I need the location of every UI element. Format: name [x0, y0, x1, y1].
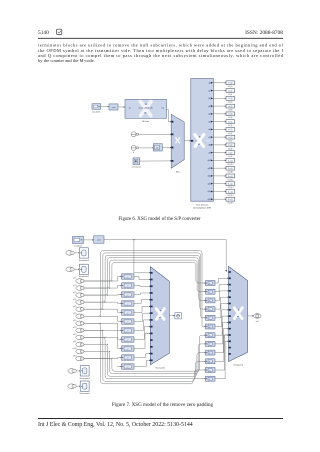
- center mux port 10: [150, 339, 152, 341]
- svg-text:out1: out1: [256, 320, 259, 323]
- right mux port 0: [229, 271, 231, 273]
- wire Counter1 to cast: [101, 106, 108, 108]
- terminal box out14: [226, 190, 235, 194]
- block Delay17 (right column): [206, 315, 216, 320]
- svg-text:Terminator5: Terminator5: [79, 392, 90, 395]
- svg-text:q6: q6: [208, 129, 210, 131]
- center mux port 6: [150, 312, 152, 314]
- block Terminator2: [79, 248, 88, 258]
- TDD output port q3: [211, 105, 214, 107]
- svg-text:Time Diverse: Time Diverse: [196, 204, 209, 206]
- mux Mux (fig6 trapezoid): [171, 114, 184, 168]
- mux input port 2 (fig6): [171, 133, 173, 135]
- wire Delay1 to center mux: [134, 276, 149, 279]
- wire input jog to Delay9: [84, 337, 120, 348]
- inport oval in2 (fig7): [76, 293, 84, 298]
- svg-text:cast: cast: [97, 239, 101, 242]
- inport oval in0 (fig7): [76, 279, 84, 284]
- svg-text:xd: xd: [129, 107, 131, 109]
- inport oval in8 (fig7): [76, 335, 84, 340]
- terminal box out1: [226, 89, 235, 93]
- terminal box out4: [226, 112, 235, 116]
- wire q5 to terminal: [213, 121, 224, 123]
- wire Delay10 to center mux: [134, 354, 149, 358]
- svg-text:q9/5: q9/5: [73, 341, 76, 343]
- svg-text:q0: q0: [208, 83, 210, 85]
- svg-text:q2/5: q2/5: [73, 292, 76, 294]
- svg-text:q6/5: q6/5: [73, 320, 76, 322]
- wire q6 to terminal: [213, 128, 224, 130]
- wire Delay6 to center mux: [134, 313, 149, 321]
- wire Delay18 to right mux: [215, 310, 227, 327]
- inport oval feeding Terminator1: [66, 267, 73, 272]
- block Delay9 (middle column): [122, 346, 135, 351]
- svg-text:Terminator1: Terminator1: [79, 275, 90, 278]
- svg-text:(I7,Q): (I7,Q): [228, 137, 232, 139]
- TDD output port q4: [211, 113, 214, 115]
- TDD output port q1: [211, 90, 214, 92]
- svg-text:I0,Q0: I0,Q0: [228, 86, 232, 88]
- wire right mux output: [248, 315, 253, 317]
- TDD output port q0: [211, 82, 214, 84]
- wire Delay23 to right mux: [215, 335, 227, 370]
- svg-text:(I14,Q): (I14,Q): [228, 191, 233, 193]
- right mux port 5: [229, 303, 231, 305]
- wire q11 to terminal: [213, 167, 224, 169]
- wire Delay11 to center mux: [134, 360, 149, 366]
- right mux xilinx logo: [234, 308, 242, 319]
- right mux port 3: [229, 290, 231, 292]
- wire bundle-top 5 (in5 to right Delay18): [84, 251, 204, 327]
- TDD output port q9: [211, 152, 214, 154]
- wire bundle-bottom 5 (in11 to right Delay19): [84, 335, 204, 371]
- inport circle A (fig6): [131, 132, 136, 137]
- terminal box out11: [226, 166, 235, 170]
- block Counter1 (fig6): [92, 104, 101, 110]
- svg-text:q4: q4: [208, 114, 210, 116]
- block Delay6 (middle column): [122, 319, 135, 324]
- inport oval in3 (fig7): [76, 300, 84, 305]
- wire q10 to terminal: [213, 159, 224, 161]
- inport oval in10 (fig7): [76, 349, 84, 354]
- block Terminator5: [80, 381, 89, 391]
- wire Delay21 to right mux: [215, 329, 227, 353]
- svg-text:(I13,Q): (I13,Q): [228, 184, 233, 186]
- mux input port 3 (fig6): [171, 147, 173, 149]
- svg-text:(I9,Q): (I9,Q): [228, 152, 232, 154]
- wire Delay24 to right mux: [215, 341, 227, 378]
- center mux port 3: [150, 292, 152, 294]
- wire Delay2 to center mux: [134, 284, 149, 287]
- block Delay3 (middle column): [122, 292, 135, 297]
- center mux port 7: [150, 319, 152, 321]
- block Delay2 (middle column): [122, 283, 135, 288]
- inport oval in6 (fig7): [76, 321, 84, 326]
- TDD output port q11: [211, 167, 214, 169]
- svg-text:Figure 7. XSG model of the rem: Figure 7. XSG model of the remove zero p…: [112, 401, 214, 408]
- svg-text:q9: q9: [208, 152, 210, 154]
- wire Delay9 to center mux: [134, 333, 149, 348]
- terminal box out13: [226, 182, 235, 186]
- wire input jog to Delay2: [84, 285, 120, 288]
- wire bundle-bottom 3 (in9 to right Delay21): [84, 344, 204, 376]
- block Terminator1: [79, 264, 88, 274]
- svg-text:Imag part0: Imag part0: [233, 363, 243, 366]
- center mux port 4: [150, 299, 152, 301]
- block Terminator3: [80, 366, 89, 376]
- svg-text:I13,Q13: I13,Q13: [227, 187, 233, 189]
- terminal box out3: [226, 104, 235, 108]
- TDD input port d: [191, 140, 193, 142]
- wire Delay3 to center mux: [134, 293, 149, 294]
- wire Mux to TDD: [184, 140, 189, 142]
- svg-text:q14: q14: [208, 191, 211, 193]
- terminal box out0: [226, 81, 235, 85]
- right mux port 1: [229, 277, 231, 279]
- terminal box out6: [226, 127, 235, 131]
- block Delay5 (middle column): [122, 310, 135, 315]
- terminal box out5: [226, 120, 235, 124]
- svg-text:I15,Q15: I15,Q15: [227, 203, 233, 205]
- svg-text:(I0,Q): (I0,Q): [228, 83, 232, 85]
- svg-text:(I2,Q): (I2,Q): [228, 98, 232, 100]
- wire input jog to Delay6: [84, 316, 120, 321]
- inport oval in11 (fig7): [76, 356, 84, 361]
- center mux port 13: [150, 359, 152, 361]
- right mux port 11: [229, 340, 231, 342]
- wire Delay4 to center mux: [134, 300, 149, 304]
- wire Delay19 to right mux: [215, 316, 227, 335]
- svg-text:TDD: TDD: [206, 141, 211, 143]
- svg-text:MCode: MCode: [142, 121, 150, 123]
- wire q0 to terminal: [213, 82, 224, 84]
- figure 6: XSG model of the S/P converter: [92, 79, 235, 210]
- TDD output port q8: [211, 144, 214, 146]
- wire cast across top to right mux: [104, 240, 226, 271]
- svg-text:Constant1: Constant1: [132, 166, 142, 169]
- wire q9 to terminal: [213, 152, 224, 154]
- wire Delay5 to center mux: [134, 306, 149, 312]
- page header crossmark icon: [57, 29, 62, 34]
- block Delay19 (right column): [206, 333, 216, 338]
- wire q1 to terminal: [213, 90, 224, 92]
- wire to Terminator3: [76, 370, 79, 372]
- wire Delay20 to right mux: [215, 322, 227, 344]
- svg-text:(I1,Q): (I1,Q): [228, 90, 232, 92]
- right mux port 12: [229, 347, 231, 349]
- svg-text:Int J Elec & Comp Eng, Vol. 12: Int J Elec & Comp Eng, Vol. 12, No. 5, O…: [38, 422, 193, 428]
- wire bundle-bottom 2 (in8 to right Delay22): [84, 337, 204, 378]
- svg-text:I12,Q12: I12,Q12: [227, 179, 233, 181]
- wire inport A to Mux: [138, 133, 170, 135]
- block TDD Time Diverse Demultiplexer: [191, 79, 214, 202]
- svg-text:(I10,Q): (I10,Q): [228, 160, 233, 162]
- wire Constant1 to Mux: [140, 160, 170, 162]
- wire Delay15 to right mux: [215, 291, 227, 301]
- block Delay1 (middle column): [122, 274, 135, 279]
- wire q4 to terminal: [213, 113, 224, 115]
- svg-text:q1/5: q1/5: [73, 285, 76, 287]
- wire bundle-top 2 (in2 to right Delay15): [84, 258, 204, 301]
- center mux port 8: [150, 326, 152, 328]
- svg-text:q13: q13: [208, 183, 211, 185]
- TDD output port q6: [211, 128, 214, 130]
- wire relational to Mux: [162, 147, 170, 149]
- block Delay20 (right column): [206, 341, 216, 346]
- wire Delay22 to right mux: [215, 335, 227, 361]
- wire bundle-top 3 (in3 to right Delay16): [84, 255, 204, 309]
- TDD output port q10: [211, 160, 214, 162]
- terminal box out15: [226, 197, 235, 201]
- right mux port 7: [229, 315, 231, 317]
- right mux port 10: [229, 334, 231, 336]
- svg-text:I9,Q9: I9,Q9: [228, 156, 232, 158]
- wire Delay7 to center mux: [134, 320, 149, 330]
- terminal box out7: [226, 135, 235, 139]
- wire inport B to relational: [138, 147, 152, 149]
- figure 7: XSG model of the remove zero padding: [66, 236, 261, 395]
- wire q12 to terminal: [213, 175, 224, 177]
- svg-text:d_out = db(dl_off): d_out = db(dl_off): [139, 106, 154, 109]
- svg-text:q8: q8: [208, 145, 210, 147]
- wire center mux output: [169, 315, 173, 317]
- block Delay11 (middle column): [122, 364, 135, 369]
- svg-text:b: b: [133, 152, 134, 154]
- inport oval in5 (fig7): [76, 314, 84, 319]
- svg-text:5140: 5140: [38, 30, 49, 36]
- wire input jog to Delay5: [84, 309, 120, 312]
- inport circle B (fig6): [131, 145, 136, 150]
- center mux port 11: [150, 346, 152, 348]
- svg-text:I1,Q1: I1,Q1: [228, 94, 232, 96]
- svg-text:q5/5: q5/5: [73, 313, 76, 315]
- svg-text:q10: q10: [208, 160, 211, 162]
- wire bundle-top 4 (in4 to right Delay17): [84, 253, 204, 318]
- wire MCode to Mux sel: [167, 110, 170, 122]
- wire input jog to Delay10: [84, 357, 120, 358]
- terminal box out10: [226, 159, 235, 163]
- wire to Terminator1: [74, 268, 78, 270]
- terminal box out8: [226, 143, 235, 147]
- terminal box out12: [226, 174, 235, 178]
- wire to Terminator2: [74, 252, 78, 254]
- svg-text:q15: q15: [208, 199, 211, 201]
- svg-text:Counter1: Counter1: [74, 245, 83, 248]
- block Delay22 (right column): [206, 359, 216, 364]
- inport oval feeding Terminator3: [68, 369, 75, 374]
- wire bundle-bottom 4 (in10 to right Delay20): [84, 344, 204, 374]
- svg-text:I2,Q2: I2,Q2: [228, 102, 232, 104]
- svg-text:I11,Q11: I11,Q11: [227, 172, 233, 174]
- mux Imag part0 (right trapezoid): [229, 266, 248, 361]
- wire input jog to Delay1: [84, 276, 120, 281]
- inport oval in9 (fig7): [76, 342, 84, 347]
- svg-text:I7,Q7: I7,Q7: [228, 141, 232, 143]
- svg-text:(I12,Q): (I12,Q): [228, 176, 233, 178]
- right mux port 8: [229, 322, 231, 324]
- terminal box out2: [226, 96, 235, 100]
- block Constant1 (fig6): [133, 158, 140, 165]
- wire q13 to terminal: [213, 183, 224, 185]
- wire counter junction to center mux sel: [134, 240, 149, 273]
- wire q2 to terminal: [213, 97, 224, 99]
- svg-text:(I4,Q): (I4,Q): [228, 114, 232, 116]
- svg-text:q5: q5: [208, 121, 210, 123]
- svg-text:(I15,Q): (I15,Q): [228, 199, 233, 201]
- svg-text:q7/5: q7/5: [73, 327, 76, 329]
- terminal box after center mux: [175, 313, 181, 319]
- block Delay18 (right column): [206, 324, 216, 329]
- center mux port 9: [150, 333, 152, 335]
- block Delay15 (right column): [206, 298, 216, 303]
- svg-text:ISSN: 2088-8708: ISSN: 2088-8708: [245, 30, 283, 36]
- wire bundle-bottom 0 (in6 to right Delay24): [84, 323, 204, 384]
- wire input jog to Delay4: [84, 302, 120, 303]
- block cast (fig6): [109, 104, 118, 110]
- wire input jog to Delay7: [84, 323, 120, 330]
- wire to Terminator5: [76, 385, 79, 387]
- wire Delay8 to center mux: [134, 327, 149, 340]
- svg-text:q11/5: q11/5: [73, 355, 77, 357]
- svg-text:(I8,Q): (I8,Q): [228, 145, 232, 147]
- svg-text:I6,Q6: I6,Q6: [228, 133, 232, 135]
- wire q3 to terminal: [213, 105, 224, 107]
- center mux xilinx logo: [156, 309, 164, 320]
- svg-text:Terminator2: Terminator2: [79, 259, 90, 262]
- wire bundle-bottom 1 (in7 to right Delay23): [84, 330, 204, 381]
- svg-text:(I3,Q): (I3,Q): [228, 106, 232, 108]
- block Delay24 (right column): [206, 376, 216, 381]
- center mux port 12: [150, 353, 152, 355]
- block Delay4 (middle column): [122, 301, 135, 306]
- junction on counter wire: [133, 239, 134, 240]
- svg-text:I3,Q3: I3,Q3: [228, 109, 232, 111]
- TDD output port q5: [211, 121, 214, 123]
- svg-text:Demultiplexer (SP): Demultiplexer (SP): [193, 207, 211, 210]
- TDD output port q2: [211, 97, 214, 99]
- wire Counter1 to cast (fig7): [84, 239, 93, 241]
- svg-text:q7: q7: [208, 137, 210, 139]
- wire q8 to terminal: [213, 144, 224, 146]
- block Delay13 (right column): [206, 281, 216, 286]
- svg-text:I4,Q4: I4,Q4: [228, 117, 232, 119]
- inport oval in1 (fig7): [76, 286, 84, 291]
- svg-text:d: d: [195, 141, 196, 143]
- svg-text:cast: cast: [112, 106, 116, 109]
- svg-text:q0/5: q0/5: [73, 278, 76, 280]
- svg-text:q3/5: q3/5: [73, 299, 76, 301]
- TDD output port q12: [211, 175, 214, 177]
- center mux port 1: [150, 279, 152, 281]
- terminal box out9: [226, 151, 235, 155]
- inport oval feeding Terminator2: [66, 251, 73, 256]
- svg-text:Terminator3: Terminator3: [79, 377, 90, 380]
- block Delay14 (right column): [206, 289, 216, 294]
- outport oval out1 (fig7): [254, 314, 261, 319]
- inport oval feeding Terminator5: [68, 384, 75, 389]
- wire stub to Delay11: [117, 365, 120, 367]
- wire q7 to terminal: [213, 136, 224, 138]
- wire input jog to Delay3: [84, 293, 120, 296]
- svg-text:(I11,Q): (I11,Q): [228, 168, 233, 170]
- block cast (fig7): [94, 236, 104, 243]
- right mux port 9: [229, 328, 231, 330]
- right mux port 2: [229, 284, 231, 286]
- footer rule: [38, 418, 283, 420]
- svg-text:by the counter and the M-code.: by the counter and the M-code.: [38, 58, 95, 63]
- svg-text:q8/5: q8/5: [73, 334, 76, 336]
- center mux port 2: [150, 285, 152, 287]
- wire q14 to terminal: [213, 190, 224, 192]
- svg-text:q3: q3: [208, 106, 210, 108]
- block Delay21 (right column): [206, 350, 216, 355]
- TDD output port q7: [211, 136, 214, 138]
- TDD output port q13: [211, 183, 214, 185]
- block relational a&le;b (fig6): [153, 144, 162, 151]
- wire q15 to terminal: [213, 198, 224, 200]
- block Delay16 (right column): [206, 307, 216, 312]
- center mux port 0: [150, 272, 152, 274]
- mux input port 4 (fig6): [171, 160, 173, 162]
- svg-text:q12: q12: [208, 176, 211, 178]
- TDD output port q15: [211, 198, 214, 200]
- svg-text:a≤b: a≤b: [156, 147, 159, 150]
- svg-text:(I5,Q): (I5,Q): [228, 121, 232, 123]
- wire bundle-top 0 (in0 to right Delay13): [84, 263, 204, 284]
- right mux port 4: [229, 296, 231, 298]
- right mux port 6: [229, 309, 231, 311]
- mux xilinx logo (fig6): [176, 138, 180, 143]
- center mux port 5: [150, 306, 152, 308]
- svg-text:q1: q1: [208, 90, 210, 92]
- wire bundle-top 1 (in1 to right Delay14): [84, 260, 204, 292]
- block Delay8 (middle column): [122, 337, 135, 342]
- right mux port 13: [229, 353, 231, 355]
- svg-text:q2: q2: [208, 98, 210, 100]
- svg-text:(I6,Q): (I6,Q): [228, 129, 232, 131]
- wire Delay17 to right mux: [215, 304, 227, 318]
- svg-text:Figure 6. XSG model of the S/P: Figure 6. XSG model of the S/P converter: [118, 217, 201, 222]
- TDD xilinx logo: [195, 135, 204, 147]
- wire input jog to Delay8: [84, 330, 120, 339]
- svg-text:I14,Q14: I14,Q14: [227, 195, 233, 197]
- block MCode: [125, 99, 167, 118]
- wire cast to MCode: [118, 106, 124, 108]
- svg-text:I10,Q10: I10,Q10: [227, 164, 233, 166]
- svg-text:Counter1: Counter1: [92, 111, 101, 114]
- mux Real part0 (center trapezoid): [150, 267, 169, 365]
- svg-text:Real part0: Real part0: [156, 366, 166, 369]
- svg-text:q11: q11: [208, 168, 211, 170]
- inport oval in4 (fig7): [76, 307, 84, 312]
- block Delay10 (middle column): [122, 355, 135, 360]
- block Delay23 (right column): [206, 368, 216, 373]
- TDD output port q14: [211, 191, 214, 193]
- svg-text:I8,Q8: I8,Q8: [228, 148, 232, 150]
- svg-text:q4/5: q4/5: [73, 306, 76, 308]
- svg-text:q10/5: q10/5: [73, 348, 77, 350]
- wire Delay13 to right mux: [215, 278, 227, 283]
- MCode xilinx watermark: [140, 102, 151, 116]
- block Counter1 (fig7): [73, 236, 84, 243]
- inport oval in7 (fig7): [76, 328, 84, 333]
- block Delay7 (middle column): [122, 328, 135, 333]
- svg-text:I5,Q5: I5,Q5: [228, 125, 232, 127]
- wire Delay16 to right mux: [215, 297, 227, 309]
- wire Delay14 to right mux: [215, 285, 227, 292]
- mux input port 1 (fig6): [171, 121, 173, 123]
- header rule: [38, 37, 283, 39]
